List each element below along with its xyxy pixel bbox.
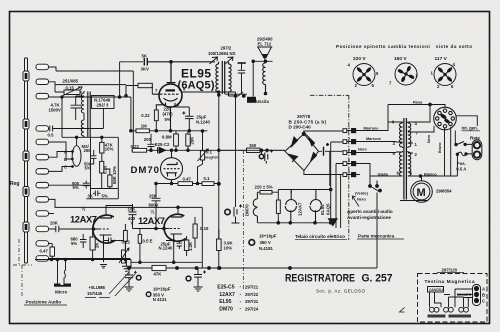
svg-text:0.22: 0.22: [141, 113, 150, 118]
resistor 1M: [136, 129, 149, 133]
svg-text:V: V: [131, 221, 134, 226]
wire riser to pins: [331, 142, 343, 228]
svg-text:157/445: 157/445: [87, 291, 103, 296]
plug J2: [36, 79, 49, 85]
voltage selector 220V: [353, 64, 375, 86]
wire J2 to grid row: [49, 82, 56, 85]
resistor hum balance: [276, 200, 280, 214]
wire T2 to uscita top: [225, 93, 247, 95]
svg-text:600V: 600V: [149, 203, 159, 208]
output transformer T2 arrows: [210, 57, 218, 64]
svg-text:16+16μF: 16+16μF: [153, 287, 171, 292]
svg-text:Nero: Nero: [357, 198, 366, 202]
wire heater bottom: [257, 222, 330, 224]
wire plate 12AX7b up: [177, 208, 179, 215]
switch verde/nero: [370, 181, 380, 193]
resistor 3.9K 10%: [217, 239, 222, 251]
svg-text:5%: 5%: [71, 241, 77, 246]
wire EL95 top cap: [167, 62, 176, 83]
plug J1: [36, 64, 49, 70]
svg-text:220 V: 220 V: [353, 56, 366, 62]
electrolytic marker left: [136, 275, 141, 280]
microphone bar: [54, 284, 71, 287]
rail connector bar 4: [23, 187, 29, 197]
wire bianco: [413, 175, 457, 177]
svg-text:Fus.: Fus.: [457, 161, 466, 166]
capacitor 4.7K 1500V: [71, 96, 85, 120]
resistor 0.15: [193, 224, 197, 238]
capacitor 5K 3KV: [144, 58, 147, 66]
svg-text:20K: 20K: [190, 136, 195, 145]
resistor 6.8M: [174, 134, 179, 146]
svg-text:+0LUME: +0LUME: [89, 285, 106, 290]
svg-text:5%: 5%: [73, 185, 79, 190]
ground volume node: [122, 260, 131, 272]
svg-text:5K: 5K: [142, 54, 148, 59]
svg-text:297/31: 297/31: [245, 299, 259, 304]
power transformer T3: [370, 118, 457, 201]
head wires: [430, 289, 473, 307]
svg-text:117 V: 117 V: [435, 56, 448, 62]
wire plug J11 to 20K cap: [49, 228, 54, 230]
mains connector Rete: [472, 140, 482, 160]
svg-text:6AQ5: 6AQ5: [326, 203, 331, 215]
svg-text:EL 712: EL 712: [258, 42, 272, 47]
wire heater right riser: [330, 189, 332, 223]
svg-text:5%: 5%: [85, 166, 91, 171]
svg-text:297/21: 297/21: [245, 284, 259, 289]
wire giallo: [370, 175, 396, 177]
svg-text:½: ½: [81, 206, 86, 213]
wire bottom left row: [35, 260, 131, 269]
tube 12AX7a V1a: [93, 215, 116, 248]
erase head box: [428, 287, 444, 293]
T3 primary lower left: [396, 151, 403, 176]
svg-text:Giallo: Giallo: [378, 173, 389, 177]
wire pins to transformer: [356, 122, 396, 131]
svg-text:E25·C2: E25·C2: [155, 142, 170, 147]
svg-text:Soc. p. Az. GELOSO: Soc. p. Az. GELOSO: [316, 288, 365, 293]
rail connector bar 5: [23, 222, 29, 232]
output transformer T2 primary: [216, 62, 219, 94]
svg-text:0.15: 0.15: [66, 86, 75, 91]
svg-text:150: 150: [249, 143, 257, 148]
svg-text:Uscita: Uscita: [256, 99, 270, 104]
svg-text:1: 1: [348, 126, 350, 130]
resistor 0.22 lower: [132, 148, 146, 152]
svg-text:(470): (470): [163, 112, 174, 117]
wire DM70 bottom row: [156, 183, 219, 185]
capacitor 680 5%: [80, 234, 87, 248]
svg-text:A: A: [482, 287, 485, 292]
svg-text:10%: 10%: [224, 246, 233, 251]
resistor 0.1 meghst: [200, 151, 204, 160]
connector Uscita: [247, 97, 256, 103]
svg-text:0.15: 0.15: [200, 226, 209, 231]
capacitor 500 5%: [83, 181, 90, 189]
svg-text:C: C: [482, 299, 485, 304]
svg-text:4: 4: [348, 159, 350, 163]
svg-text:Parte meccanica: Parte meccanica: [358, 234, 395, 239]
svg-text:Posizione Audio: Posizione Audio: [26, 300, 62, 305]
wire M2 pot top: [76, 137, 78, 145]
svg-text:10K: 10K: [128, 207, 137, 212]
svg-text:EL95: EL95: [219, 299, 231, 305]
plug J13: [36, 256, 49, 262]
connector strip black pins: [352, 129, 356, 177]
resistor 47K bus: [152, 265, 166, 270]
svg-text:1M: 1M: [141, 123, 147, 128]
svg-text:297/78: 297/78: [297, 114, 311, 119]
capacitor bridge out: [324, 143, 330, 156]
svg-text:EL95: EL95: [181, 67, 211, 81]
capacitor 0.22 coupling: [104, 238, 124, 244]
svg-text:12AX7: 12AX7: [298, 202, 303, 216]
svg-text:(Verde): (Verde): [355, 192, 369, 196]
left input rail: [25, 58, 28, 263]
electrolytic can marker: [225, 209, 230, 214]
resistor 2K cathode: [90, 237, 95, 250]
heater EL95: [310, 190, 322, 223]
voltage selector 160V: [395, 63, 417, 85]
heater 12AX7: [285, 190, 297, 223]
svg-text:250: 250: [84, 148, 92, 153]
wire main bottom bus: [127, 193, 378, 269]
capacitor 0.25: [91, 150, 97, 164]
svg-text:68K 10%: 68K 10%: [112, 166, 117, 184]
svg-text:0.25: 0.25: [102, 165, 107, 174]
svg-text:N.4181: N.4181: [259, 246, 273, 251]
resistor 0.5E: [138, 235, 141, 244]
transformer T1 label box N.17649: [92, 96, 115, 109]
resistor 220 (470) 5% cathode: [154, 110, 158, 121]
rectifier E25-C2: [148, 134, 155, 150]
svg-text:25K: 25K: [149, 193, 158, 198]
wire socket down: [445, 127, 451, 176]
svg-text:0.5: 0.5: [48, 132, 55, 137]
resistor 20K: [186, 134, 190, 146]
svg-text:0.22: 0.22: [131, 144, 140, 149]
label 350V left: [146, 292, 151, 297]
speaker coil: [263, 61, 266, 93]
svg-text:297/24: 297/24: [245, 306, 259, 311]
plug J5: [36, 139, 49, 145]
head coils: [429, 307, 434, 312]
resistor 220 heater: [260, 191, 272, 195]
wire plug J5 to pot B: [49, 142, 73, 159]
resistor 47K 10%: [100, 142, 104, 153]
svg-text:3KV: 3KV: [141, 67, 149, 72]
resistor 68K 10%: [108, 175, 112, 187]
voltage selector 117V: [434, 64, 456, 86]
bridge rectifier B250: [285, 131, 343, 186]
svg-text:N.1240: N.1240: [196, 120, 210, 125]
wire plate 12AX7a to 10K: [106, 206, 133, 216]
connector strip white pins: [343, 129, 347, 177]
wire plug J10 stub: [49, 213, 55, 215]
svg-text:297/22: 297/22: [245, 292, 259, 297]
speaker EL712 horn: [257, 47, 272, 58]
svg-text:Avanti-registrazione: Avanti-registrazione: [347, 215, 391, 220]
svg-text:B: B: [482, 293, 485, 298]
svg-text:5%: 5%: [102, 194, 108, 199]
capacitor 3K 5%: [93, 191, 101, 197]
wire plug J3 right: [49, 96, 131, 98]
svg-text:0.1: 0.1: [204, 176, 211, 181]
capacitor 20K input: [53, 226, 100, 233]
wire long vertical B+ right: [235, 92, 237, 207]
plug J3: [36, 93, 49, 99]
svg-text:1500V: 1500V: [49, 108, 62, 113]
T3 secondary lower right: [408, 151, 413, 176]
wire secondary to uscita: [229, 92, 247, 96]
electrolytic cap filter: [265, 150, 273, 164]
potentiometer volume: [122, 250, 126, 263]
svg-text:Nero: Nero: [427, 134, 431, 143]
output transformer T2 secondary: [229, 62, 232, 96]
wire speaker row: [253, 58, 272, 62]
svg-text:Testina Magnetica: Testina Magnetica: [425, 279, 475, 285]
capacitor right of T2: [238, 62, 246, 64]
resistor anode 12AX7a: [124, 231, 128, 242]
svg-text:Nero: Nero: [358, 148, 367, 152]
svg-text:Rete: Rete: [470, 135, 480, 140]
tube DM70 V2: [161, 150, 183, 183]
svg-text:20K: 20K: [50, 221, 59, 226]
ground heater: [329, 219, 338, 226]
svg-text:Telaio circuito elettrico: Telaio circuito elettrico: [295, 234, 345, 239]
svg-text:Micro: Micro: [55, 290, 67, 295]
heater DM70: [253, 192, 257, 223]
svg-text:D 200-C40: D 200-C40: [289, 125, 312, 130]
svg-text:Marrone: Marrone: [366, 137, 381, 141]
svg-text:0.5 E: 0.5 E: [143, 239, 153, 244]
svg-text:2: 2: [348, 137, 350, 141]
transformer T2 core: [222, 61, 224, 94]
svg-text:N 4131: N 4131: [153, 297, 167, 302]
wire plug J13 right: [49, 259, 131, 260]
svg-text:100/12694 NS: 100/12694 NS: [208, 51, 236, 56]
switch int gen: [455, 116, 477, 145]
svg-text:47K: 47K: [154, 271, 163, 276]
electrolytic marker right: [186, 276, 191, 281]
svg-text:Posizione spinotto cambia tens: Posizione spinotto cambia tensioni viste…: [336, 44, 472, 49]
mark angle: [400, 308, 405, 313]
boundary dash-dot top: [310, 95, 349, 240]
svg-text:N.1240: N.1240: [159, 246, 173, 251]
tube 12AX7b V1b: [164, 214, 186, 247]
svg-text:10%: 10%: [105, 147, 114, 152]
wire cathode row: [166, 241, 174, 263]
plug J4: [36, 126, 49, 132]
svg-text:251/085: 251/085: [63, 79, 79, 84]
svg-text:EL95: EL95: [320, 204, 325, 215]
svg-text:1.2K: 1.2K: [188, 241, 193, 251]
svg-text:160 V: 160 V: [394, 56, 407, 62]
svg-text:0.1: 0.1: [206, 150, 213, 155]
capacitor 10K 400V: [129, 204, 151, 229]
rail connector bar 1: [23, 71, 29, 81]
plug J10: [36, 211, 49, 217]
wire plug J12 stub: [49, 243, 53, 245]
svg-text:297/2: 297/2: [221, 46, 232, 51]
capacitor 25uF N.1240: [182, 107, 193, 131]
svg-text:DM70: DM70: [219, 306, 233, 312]
wire bottom mid row: [131, 262, 202, 268]
svg-text:0.47: 0.47: [183, 177, 192, 182]
ground 12AX7a cathode: [100, 248, 107, 268]
electrolytic 25uF N1240: [177, 240, 183, 249]
capacitor 25K 600V: [152, 184, 161, 229]
svg-text:A: A: [64, 150, 67, 155]
svg-text:3K: 3K: [88, 194, 94, 199]
wire speaker left down: [252, 61, 254, 97]
plug J7: [36, 169, 49, 175]
electrolytic cap right: [194, 268, 207, 291]
rail connector bar 3: [23, 151, 29, 161]
svg-text:Reg: Reg: [10, 181, 19, 187]
svg-text:2K: 2K: [95, 242, 100, 248]
svg-text:12AX7: 12AX7: [70, 214, 97, 225]
wire plug J7 to pot C: [49, 167, 73, 172]
wire top bus to 5K cap: [49, 62, 144, 97]
plug J9: [36, 197, 49, 203]
input transformer T1 secondary winding: [81, 120, 84, 138]
wire tap7 to socket: [413, 126, 434, 132]
resistor 4.7K grid stopper: [138, 83, 152, 87]
volume pointer lines: [109, 272, 135, 296]
svg-text:Bruno: Bruno: [438, 142, 442, 153]
wire bridge plus to pin1: [304, 131, 343, 134]
svg-text:5: 5: [348, 170, 350, 174]
T3 secondary upper right: [408, 122, 413, 148]
svg-text:M: M: [417, 187, 426, 199]
resistor 150: [247, 148, 261, 152]
plug J12: [36, 241, 49, 247]
svg-text:DM70: DM70: [131, 165, 160, 176]
wire micro: [58, 260, 66, 284]
svg-text:220 ± 5%: 220 ± 5%: [255, 185, 273, 190]
plug J6: [36, 154, 49, 160]
wire EL95 cathode row: [131, 130, 208, 132]
electrolytic cap left: [125, 268, 137, 291]
resistor 0.1: [202, 182, 214, 186]
svg-text:E25-C5: E25-C5: [217, 284, 234, 290]
electrolytic marker mid: [249, 240, 255, 246]
wire heater top: [278, 190, 330, 194]
boundary dashed line: [242, 150, 244, 291]
svg-text:CANCELL: CANCELL: [429, 288, 444, 292]
network loop box: [62, 137, 118, 199]
tube EL95 V3: [159, 84, 182, 107]
svg-text:0.47: 0.47: [40, 248, 49, 253]
svg-text:REGISTRATORE: REGISTRATORE: [285, 272, 355, 284]
svg-text:REGISTR: REGISTR: [457, 293, 472, 297]
resistor 0.47 volume: [50, 247, 55, 256]
svg-text:G. 257: G. 257: [362, 272, 393, 284]
head shields hatched: [428, 315, 446, 318]
resistor 2K net: [100, 161, 104, 173]
T3 core: [404, 118, 407, 200]
svg-text:12AX7: 12AX7: [138, 215, 165, 226]
fuse: [457, 152, 472, 176]
svg-text:299/654: 299/654: [436, 189, 452, 194]
wire long vertical B+ left: [218, 95, 220, 239]
resistor 1.2K: [184, 240, 189, 251]
wire bridge bottom: [304, 171, 343, 175]
rail connector bar 2: [23, 119, 29, 129]
selector socket: [388, 103, 456, 176]
wire B+ top bus: [147, 61, 215, 63]
svg-text:200: 200: [144, 137, 152, 142]
potentiometer 251/085 0.15: [64, 90, 80, 95]
wire 150 row: [219, 149, 285, 151]
transformer T1 core: [88, 92, 90, 138]
wire grid row y149: [133, 149, 285, 151]
svg-text:292/ 3: 292/ 3: [97, 103, 110, 108]
svg-text:5%: 5%: [165, 117, 171, 122]
wire tap4 up: [413, 105, 430, 123]
svg-text:Int. gen.: Int. gen.: [462, 126, 478, 131]
node EL95 anode top: [170, 61, 173, 64]
svg-text:Aperto avanti.i-audio: Aperto avanti.i-audio: [347, 209, 393, 214]
svg-text:12AX7: 12AX7: [219, 292, 235, 298]
electrolytic can marker 2: [259, 154, 263, 158]
wire plug J8 right: [49, 184, 91, 186]
svg-text:C: C: [64, 165, 67, 170]
dash-dot audio boundary: [13, 239, 32, 298]
wire pot down: [61, 97, 63, 137]
testina magnetica box: [418, 273, 488, 322]
svg-text:Bianco: Bianco: [424, 173, 437, 177]
T3 primary upper left: [396, 122, 403, 148]
arrow to switch: [352, 196, 359, 207]
svg-text:DM70: DM70: [245, 204, 250, 216]
svg-text:0.22: 0.22: [122, 239, 131, 244]
potentiometer M2/250: [72, 146, 81, 167]
svg-text:Marrone: Marrone: [364, 126, 379, 130]
wire bridge output: [319, 151, 344, 186]
svg-text:3: 3: [348, 148, 350, 152]
svg-text:meghst: meghst: [205, 156, 219, 160]
head terminals block: [473, 285, 481, 306]
svg-text:16+16μF: 16+16μF: [259, 234, 277, 239]
motor M: [411, 176, 433, 202]
svg-text:0.5 A: 0.5 A: [456, 166, 466, 171]
svg-text:350 V: 350 V: [260, 240, 271, 245]
plug J11: [36, 226, 49, 232]
input transformer T1 292/3 primary: [81, 91, 84, 120]
plug J8: [36, 182, 49, 188]
wire grid 12AX7b: [150, 228, 170, 230]
svg-text:297/120: 297/120: [442, 268, 458, 273]
electrolytic cap mid: [232, 205, 243, 224]
resistor 0.47: [178, 182, 193, 186]
capacitor 0.5 on J4: [49, 109, 104, 132]
svg-text:6.8M: 6.8M: [162, 135, 172, 140]
wire plug J6 to pot A: [49, 152, 73, 158]
wire plug J9 long: [49, 199, 203, 262]
wire socket top: [388, 105, 445, 123]
svg-text:B: B: [64, 157, 67, 162]
svg-text:Rosa: Rosa: [413, 101, 423, 105]
